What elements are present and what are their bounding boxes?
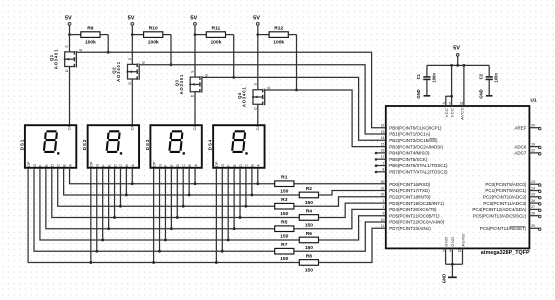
transistor Q3 AO3401 P-MOSFET xyxy=(174,35,208,98)
svg-text:C2: C2 xyxy=(478,73,483,79)
wire R5 to U1 PD4 xyxy=(294,209,386,228)
svg-text:31: 31 xyxy=(381,186,385,190)
junction node 5V/R10/Q2 source xyxy=(131,33,134,36)
junction dots segment-A bus xyxy=(131,182,259,185)
U1 left pin names/numbers PD0-PD7 xyxy=(381,180,445,231)
wire AVCC pin 18 xyxy=(463,65,465,106)
svg-text:DS3: DS3 xyxy=(145,139,150,151)
svg-text:DP: DP xyxy=(215,161,219,167)
junction R10/gate net xyxy=(170,63,173,66)
IC U1 atmega328P_TQFP body xyxy=(386,98,537,257)
junction dots segment-F bus xyxy=(101,239,229,242)
svg-text:D: D xyxy=(51,164,55,167)
wire R6 to U1 PD5 xyxy=(319,216,386,240)
svg-text:150: 150 xyxy=(305,245,313,251)
wire segment-DP bus (DS pins to R8) xyxy=(28,168,299,263)
wire VCC pin 4 jog xyxy=(446,96,452,106)
wire DS2/DS3/DS4 segment-C pin drops xyxy=(120,168,246,206)
svg-text:100n: 100n xyxy=(494,73,499,83)
svg-text:PB4(PCINT4/MISO): PB4(PCINT4/MISO) xyxy=(389,151,430,156)
svg-text:10: 10 xyxy=(381,218,385,222)
svg-text:CA: CA xyxy=(129,125,134,131)
svg-text:GND: GND xyxy=(416,89,421,98)
svg-text:R5: R5 xyxy=(281,220,288,226)
svg-text:PC5(PCINT13/ADC5/SCL): PC5(PCINT13/ADC5/SCL) xyxy=(473,213,527,218)
svg-text:150: 150 xyxy=(305,267,313,273)
U1 bottom pin labels GND GND AGND and numbers xyxy=(443,233,466,253)
svg-text:11: 11 xyxy=(381,224,385,228)
svg-text:R8: R8 xyxy=(306,253,313,259)
junction dots segment-DP bus xyxy=(89,261,217,264)
wire DS2/DS3/DS4 segment-G pin drops xyxy=(97,168,223,251)
svg-text:R4: R4 xyxy=(306,208,313,214)
svg-text:100k: 100k xyxy=(210,40,221,46)
svg-text:32: 32 xyxy=(381,193,385,197)
svg-text:A: A xyxy=(194,164,198,167)
wire DS2/DS3/DS4 segment-A pin drops xyxy=(132,168,258,184)
svg-text:PB0(PCINT0/CLKO/ICP1): PB0(PCINT0/CLKO/ICP1) xyxy=(389,125,442,130)
svg-text:150: 150 xyxy=(280,234,288,240)
power 5V supply (U1) xyxy=(453,45,460,65)
svg-text:GND: GND xyxy=(442,274,447,283)
svg-text:DS1: DS1 xyxy=(19,139,24,151)
wire segment-C bus (DS pins to R3) xyxy=(58,168,275,206)
svg-text:PB7(PCINT7/XTAL2/TOSC2): PB7(PCINT7/XTAL2/TOSC2) xyxy=(389,170,448,175)
svg-text:PB1(PCINT1/OC1A): PB1(PCINT1/OC1A) xyxy=(389,132,431,137)
transistor Q1 AO3401 P-MOSFET xyxy=(49,35,83,72)
svg-text:13: 13 xyxy=(381,130,385,134)
wire drain of Q3 to DS3 CA xyxy=(194,92,196,126)
junction dots segment-C bus xyxy=(119,205,247,208)
svg-text:R6: R6 xyxy=(306,231,313,237)
wire gate net Q1 to U1 PB0 xyxy=(77,52,386,128)
svg-text:100k: 100k xyxy=(85,40,96,46)
resistor R8 150 series xyxy=(299,253,318,273)
power 5V supply (column 3) xyxy=(190,15,197,34)
resistor R2 150 series xyxy=(299,186,318,206)
wire gate net Q3 to U1 PB2 xyxy=(203,77,386,140)
svg-text:C1: C1 xyxy=(416,73,421,79)
svg-text:PC1(PCINT9/ADC1): PC1(PCINT9/ADC1) xyxy=(485,188,527,193)
junction R12/gate net xyxy=(295,89,298,92)
ground symbol at U1 xyxy=(442,274,457,283)
U1 top pin labels VCC VCC AVCC and numbers xyxy=(443,101,465,120)
svg-text:U1: U1 xyxy=(530,98,537,104)
svg-text:14: 14 xyxy=(381,136,385,140)
junction R11/gate net xyxy=(232,76,235,79)
svg-text:C: C xyxy=(57,164,61,167)
svg-text:R12: R12 xyxy=(274,26,283,32)
svg-text:R7: R7 xyxy=(281,242,288,248)
wire drain of Q4 to DS4 CA xyxy=(257,104,259,125)
resistor R3 150 series xyxy=(275,197,294,217)
svg-text:DP: DP xyxy=(152,161,156,167)
svg-text:PB2(PCINT2/OC1B/SS): PB2(PCINT2/OC1B/SS) xyxy=(389,138,438,143)
transistor Q4 AO3401 P-MOSFET xyxy=(237,35,271,110)
wire R8 to U1 PD7 xyxy=(319,228,386,262)
wire R10 to gate of Q2 xyxy=(170,35,172,65)
power 5V supply (column 2) xyxy=(128,15,135,34)
svg-text:C: C xyxy=(119,164,123,167)
svg-text:E: E xyxy=(170,164,174,167)
resistor R4 150 series xyxy=(299,208,318,228)
wire R3 to U1 PD2 xyxy=(294,197,386,206)
svg-text:C: C xyxy=(245,164,249,167)
svg-text:150: 150 xyxy=(280,211,288,217)
junction dots segment-D bus xyxy=(113,216,241,219)
svg-text:PD2(PCINT18/INT0): PD2(PCINT18/INT0) xyxy=(389,195,431,200)
resistor R5 150 series xyxy=(275,220,294,240)
svg-text:PD4(PCINT20/XCK/T0): PD4(PCINT20/XCK/T0) xyxy=(389,207,437,212)
svg-text:C: C xyxy=(182,164,186,167)
svg-text:E: E xyxy=(45,164,49,167)
resistor R9 100k pull-up xyxy=(70,26,109,46)
svg-text:29: 29 xyxy=(531,224,535,228)
wire segment-B bus (DS pins to R2) xyxy=(64,168,300,195)
wire segment-F bus (DS pins to R6) xyxy=(40,168,299,240)
power 5V supply (column 4) xyxy=(253,15,260,34)
wire DS2/DS3/DS4 segment-F pin drops xyxy=(103,168,229,240)
svg-text:DS4: DS4 xyxy=(208,139,213,151)
wire gate net Q2 to U1 PB1 xyxy=(140,65,386,134)
junction R9/gate net xyxy=(107,51,110,54)
svg-text:5V: 5V xyxy=(128,15,135,21)
svg-text:PD0(PCINT16/RXD): PD0(PCINT16/RXD) xyxy=(389,182,431,187)
wire U1 GND pins 3/5/21 to ground xyxy=(446,248,463,277)
display DS3 7-segment xyxy=(145,125,202,168)
junction dots segment-B bus xyxy=(125,194,253,197)
resistor R10 100k pull-up xyxy=(132,26,171,46)
svg-text:PC3(PCINT11/ADC3): PC3(PCINT11/ADC3) xyxy=(483,201,527,206)
svg-text:CA: CA xyxy=(192,125,197,131)
svg-text:100k: 100k xyxy=(273,40,284,46)
display DS2 7-segment xyxy=(82,125,139,168)
svg-text:3: 3 xyxy=(443,249,445,253)
svg-text:PC6(PCINT14/RESET): PC6(PCINT14/RESET) xyxy=(480,226,527,231)
svg-text:AO3401: AO3401 xyxy=(116,61,121,82)
wire VCC pin 6 xyxy=(451,65,453,106)
svg-text:1: 1 xyxy=(382,199,384,203)
U1 right pin names/numbers (AREF ADC PC0-PC6) xyxy=(472,124,541,232)
svg-text:6: 6 xyxy=(449,101,451,105)
svg-text:VCC: VCC xyxy=(450,108,455,118)
svg-text:PC4(PCINT12/ADC4/SDA): PC4(PCINT12/ADC4/SDA) xyxy=(472,207,527,212)
resistor R1 150 series xyxy=(275,175,294,195)
svg-text:8: 8 xyxy=(382,168,384,172)
svg-text:100n: 100n xyxy=(431,73,436,83)
svg-text:D: D xyxy=(176,164,180,167)
svg-text:A: A xyxy=(257,164,261,167)
svg-text:PD1(PCINT17/TXD): PD1(PCINT17/TXD) xyxy=(389,188,430,193)
svg-text:DS2: DS2 xyxy=(82,139,87,151)
wire DS2/DS3/DS4 segment-DP pin drops xyxy=(91,168,217,263)
transistor Q2 AO3401 P-MOSFET xyxy=(112,35,146,85)
svg-text:GND: GND xyxy=(450,236,455,246)
svg-text:CA: CA xyxy=(255,125,260,131)
svg-text:E: E xyxy=(107,164,111,167)
svg-text:PD7(PCINT23/AIN1): PD7(PCINT23/AIN1) xyxy=(389,226,431,231)
svg-text:150: 150 xyxy=(280,256,288,262)
power 5V supply (column 1) xyxy=(65,15,72,34)
wire R7 to U1 PD6 xyxy=(294,222,386,251)
svg-text:PB5(PCINT5/SCK): PB5(PCINT5/SCK) xyxy=(389,157,428,162)
resistor R7 150 series xyxy=(275,242,294,262)
wire DS2/DS3/DS4 segment-E pin drops xyxy=(109,168,235,229)
wire R2 to U1 PD1 xyxy=(319,191,386,195)
wire segment-A bus (DS pins to R1) xyxy=(70,168,275,184)
wire R12 to gate of Q4 xyxy=(296,35,298,90)
svg-text:G: G xyxy=(33,164,37,167)
svg-text:DP: DP xyxy=(90,161,94,167)
junction node 5V/R9/Q1 source xyxy=(68,33,71,36)
svg-text:PD5(PCINT21/OC0B/T1): PD5(PCINT21/OC0B/T1) xyxy=(389,213,440,218)
svg-text:ADC7: ADC7 xyxy=(514,151,527,156)
svg-text:27: 27 xyxy=(531,205,535,209)
display DS1 7-segment xyxy=(19,125,76,168)
svg-text:150: 150 xyxy=(280,189,288,195)
svg-text:R2: R2 xyxy=(306,186,313,192)
svg-text:PC2(PCINT10/ADC2): PC2(PCINT10/ADC2) xyxy=(483,195,527,200)
resistor R12 100k pull-up xyxy=(258,26,297,46)
svg-text:G: G xyxy=(158,164,162,167)
capacitor C1 100n xyxy=(416,65,436,95)
svg-text:R3: R3 xyxy=(281,197,288,203)
svg-text:R9: R9 xyxy=(87,26,94,32)
svg-text:19: 19 xyxy=(531,142,535,146)
ground symbol at C2 xyxy=(479,89,493,98)
svg-text:VCC: VCC xyxy=(444,108,449,118)
wire drain of Q2 to DS2 CA xyxy=(131,79,133,125)
svg-text:12: 12 xyxy=(381,124,385,128)
wire drain of Q1 to DS1 CA xyxy=(69,67,71,126)
svg-text:AGND: AGND xyxy=(460,233,465,246)
U1 left pin names/numbers PB0-PB7 xyxy=(375,124,448,175)
junction node 5V/R11/Q3 source xyxy=(194,33,197,36)
svg-text:24: 24 xyxy=(531,186,535,190)
junction VCC pins split xyxy=(450,95,453,98)
svg-text:16: 16 xyxy=(381,149,385,153)
svg-text:PC0(PCINT8/ADC0): PC0(PCINT8/ADC0) xyxy=(485,182,527,187)
svg-text:4: 4 xyxy=(443,101,445,105)
junction GND net xyxy=(451,263,454,266)
wire VCC rail xyxy=(427,64,489,66)
svg-text:18: 18 xyxy=(460,101,464,105)
junction node 5V/R12/Q4 source xyxy=(256,33,259,36)
svg-text:AREF: AREF xyxy=(514,125,526,130)
ground symbol at C1 xyxy=(416,89,430,98)
svg-text:A: A xyxy=(68,164,72,167)
svg-text:R10: R10 xyxy=(149,26,158,32)
svg-text:G: G xyxy=(142,61,146,64)
svg-text:15: 15 xyxy=(381,142,385,146)
svg-text:22: 22 xyxy=(531,149,535,153)
svg-text:G: G xyxy=(221,164,225,167)
svg-text:25: 25 xyxy=(531,193,535,197)
wire DS2/DS3/DS4 segment-D pin drops xyxy=(115,168,241,218)
svg-text:23: 23 xyxy=(531,180,535,184)
svg-text:AVCC: AVCC xyxy=(460,107,465,120)
svg-text:CA: CA xyxy=(67,125,72,131)
svg-text:G: G xyxy=(204,74,208,77)
junction dots on VCC rail xyxy=(450,64,465,67)
junction dots segment-E bus xyxy=(107,227,235,230)
svg-text:150: 150 xyxy=(305,222,313,228)
svg-text:26: 26 xyxy=(531,199,535,203)
svg-text:28: 28 xyxy=(531,212,535,216)
junction dots segment-G bus xyxy=(95,250,223,253)
resistor R6 150 series xyxy=(299,231,318,251)
svg-text:G: G xyxy=(79,48,83,51)
wire R1 to U1 PD0 xyxy=(294,183,386,185)
svg-text:AO3401: AO3401 xyxy=(242,86,247,107)
svg-text:D: D xyxy=(113,164,117,167)
svg-text:5V: 5V xyxy=(453,45,460,51)
wire segment-D bus (DS pins to R4) xyxy=(52,168,300,218)
wire R11 to gate of Q3 xyxy=(233,35,235,78)
svg-text:DP: DP xyxy=(27,161,31,167)
svg-text:E: E xyxy=(233,164,237,167)
svg-text:100k: 100k xyxy=(148,40,159,46)
svg-text:5V: 5V xyxy=(253,15,260,21)
wire R9 to gate of Q1 xyxy=(107,35,109,53)
svg-text:5V: 5V xyxy=(190,15,197,21)
svg-text:21: 21 xyxy=(458,249,462,253)
svg-text:D: D xyxy=(239,164,243,167)
wire segment-G bus (DS pins to R7) xyxy=(34,168,275,251)
svg-text:PD3(PCINT19/OC2B/INT1): PD3(PCINT19/OC2B/INT1) xyxy=(389,201,444,206)
svg-text:7: 7 xyxy=(382,161,384,165)
svg-text:30: 30 xyxy=(381,180,385,184)
svg-text:G: G xyxy=(267,86,271,89)
wire R4 to U1 PD3 xyxy=(319,203,386,217)
svg-text:A: A xyxy=(131,164,135,167)
svg-text:PB6(PCINT6/XTAL1/TOSC1): PB6(PCINT6/XTAL1/TOSC1) xyxy=(389,163,448,168)
svg-text:AO3401: AO3401 xyxy=(179,74,184,95)
svg-text:2: 2 xyxy=(382,205,384,209)
svg-text:atmega328P_TQFP: atmega328P_TQFP xyxy=(481,250,530,256)
svg-text:R1: R1 xyxy=(281,175,288,181)
svg-text:9: 9 xyxy=(382,212,384,216)
capacitor C2 100n xyxy=(478,65,498,95)
svg-text:PB3(PCINT3/OC2A/MOSI): PB3(PCINT3/OC2A/MOSI) xyxy=(389,144,443,149)
svg-text:5: 5 xyxy=(449,249,451,253)
svg-text:17: 17 xyxy=(381,155,385,159)
svg-text:20: 20 xyxy=(531,124,535,128)
svg-text:GND: GND xyxy=(443,236,448,246)
svg-text:5V: 5V xyxy=(65,15,72,21)
wire DS2/DS3/DS4 segment-B pin drops xyxy=(126,168,251,195)
svg-text:G: G xyxy=(96,164,100,167)
resistor R11 100k pull-up xyxy=(195,26,234,46)
svg-text:AO3401: AO3401 xyxy=(53,49,58,70)
wire gate net Q4 to U1 PB3 xyxy=(265,90,386,147)
display DS4 7-segment xyxy=(208,125,265,168)
svg-text:R11: R11 xyxy=(212,26,221,32)
svg-text:ADC6: ADC6 xyxy=(514,144,527,149)
svg-text:GND: GND xyxy=(479,89,484,98)
svg-text:PD6(PCINT22/OC0A/AIN0): PD6(PCINT22/OC0A/AIN0) xyxy=(389,220,445,225)
svg-text:150: 150 xyxy=(305,200,313,206)
wire segment-E bus (DS pins to R5) xyxy=(46,168,275,229)
